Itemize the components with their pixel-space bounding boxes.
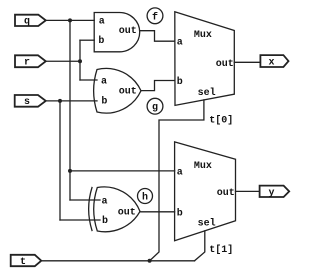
- wire AND.out to Mux1.a: [140, 31, 175, 42]
- svg-text:y: y: [269, 188, 275, 199]
- svg-text:out: out: [119, 26, 137, 37]
- svg-text:f: f: [152, 11, 158, 23]
- net label circle g: [147, 98, 163, 114]
- wire OR.out to Mux1.b: [141, 81, 175, 91]
- svg-text:sel: sel: [198, 218, 216, 230]
- wire from node at (70,171) to Mux2.a: [70, 170, 175, 172]
- wire XOR.a horizontal: [70, 199, 100, 201]
- output pin y: [260, 186, 290, 197]
- svg-text:b: b: [102, 215, 108, 227]
- AND gate (f) body: [94, 13, 140, 52]
- svg-text:out: out: [217, 188, 235, 199]
- svg-text:t[0]: t[0]: [209, 115, 233, 127]
- svg-text:Mux: Mux: [194, 30, 212, 41]
- svg-text:b: b: [177, 208, 183, 220]
- svg-text:a: a: [102, 196, 108, 207]
- wire t to Mux2 sel t[1]: [195, 231, 205, 261]
- junction dot on t wire: [148, 259, 152, 263]
- svg-text:a: a: [177, 38, 183, 49]
- input pin t: [11, 255, 42, 266]
- svg-text:a: a: [101, 76, 107, 87]
- XOR gate (h) body: [94, 187, 140, 232]
- OR gate (g) body: [94, 68, 141, 113]
- svg-text:q: q: [24, 17, 30, 28]
- wire Mux1 sel net t[0]: [150, 100, 204, 261]
- wire q to AND.a: [46, 19, 94, 21]
- junction dot on r wire: [78, 59, 82, 63]
- wire vertical x=80: [79, 40, 81, 80]
- wire to AND.b: [80, 39, 94, 41]
- wire XOR.out to Mux2.b: [140, 211, 175, 213]
- wire r to node: [46, 60, 80, 62]
- Mux1 trapezoid: [175, 12, 235, 106]
- svg-text:out: out: [216, 59, 234, 70]
- input pin q: [15, 15, 46, 26]
- wire t horizontal: [41, 260, 194, 262]
- wire XOR.b horizontal: [60, 219, 100, 221]
- svg-text:r: r: [24, 58, 30, 69]
- junction dot on s wire: [58, 99, 62, 103]
- wire vertical x=60 from s node down: [59, 101, 61, 220]
- input pin s: [15, 95, 46, 107]
- wire Mux2.out to y: [236, 190, 260, 192]
- svg-text:t: t: [20, 257, 26, 268]
- svg-text:g: g: [152, 103, 158, 114]
- XOR extra input arc: [89, 188, 92, 231]
- svg-text:sel: sel: [198, 87, 216, 99]
- svg-text:out: out: [118, 208, 136, 219]
- svg-text:b: b: [101, 96, 107, 108]
- output pin x: [260, 55, 288, 67]
- svg-text:b: b: [98, 35, 104, 47]
- svg-text:x: x: [269, 58, 275, 69]
- svg-text:t[1]: t[1]: [209, 244, 233, 256]
- wire vertical x=70 from q down to XOR.a corner: [69, 20, 71, 200]
- svg-text:Mux: Mux: [194, 161, 212, 172]
- wire s to OR.b: [46, 100, 97, 102]
- svg-text:out: out: [119, 86, 137, 97]
- net label circle h: [138, 189, 153, 204]
- svg-text:h: h: [142, 192, 148, 204]
- junction dot node (70,171): [68, 169, 72, 173]
- wire to OR.a: [80, 79, 97, 81]
- svg-text:a: a: [99, 17, 105, 28]
- wire Mux1.out to x: [234, 61, 260, 63]
- net label circle f: [147, 8, 163, 24]
- svg-text:b: b: [177, 76, 183, 88]
- svg-text:a: a: [177, 167, 183, 178]
- svg-text:s: s: [24, 97, 30, 108]
- input pin r: [15, 55, 46, 67]
- Mux2 trapezoid: [175, 142, 236, 241]
- junction dot on q wire: [68, 18, 72, 22]
